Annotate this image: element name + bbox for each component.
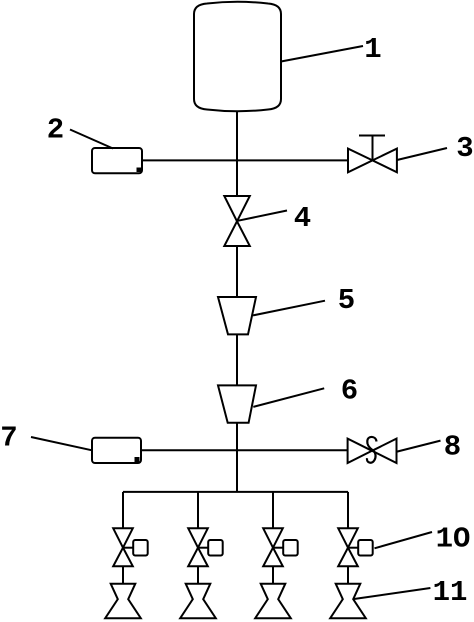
svg-text:5: 5 xyxy=(338,284,355,317)
svg-text:7: 7 xyxy=(0,422,17,455)
svg-text:2: 2 xyxy=(47,114,64,147)
svg-text:1O: 1O xyxy=(436,523,471,556)
svg-text:11: 11 xyxy=(433,576,468,609)
svg-text:8: 8 xyxy=(444,431,461,464)
svg-text:6: 6 xyxy=(341,375,358,408)
svg-text:1: 1 xyxy=(364,33,381,66)
svg-text:3: 3 xyxy=(456,132,473,165)
svg-text:4: 4 xyxy=(294,202,311,235)
